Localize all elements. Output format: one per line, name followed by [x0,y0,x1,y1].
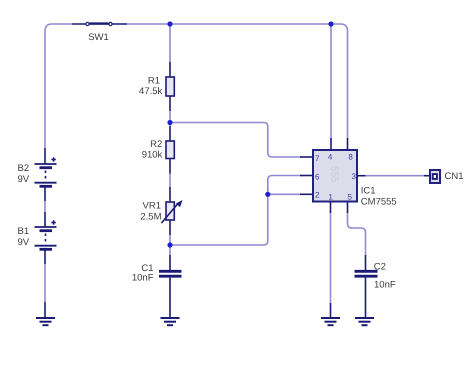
wire battery B1 to ground [44,264,46,302]
wire junction to IC pin 7 [170,123,302,158]
wire top rail from switch to pin 8 corner [127,24,348,139]
svg-text:10nF: 10nF [374,280,396,291]
svg-text:R1: R1 [148,76,160,87]
wire top rail from battery corner to switch [45,24,72,148]
battery B1 [18,212,57,264]
svg-text:2: 2 [315,191,320,200]
capacitor C2 [355,255,396,318]
svg-text:2.5M: 2.5M [140,211,161,222]
svg-text:7: 7 [315,154,320,163]
node junction R1 R2 [167,120,172,125]
wire junction to C1 [169,245,171,255]
svg-text:8: 8 [348,153,353,162]
ground battery [36,302,55,325]
svg-text:47.5k: 47.5k [139,86,162,97]
svg-text:910k: 910k [142,149,163,160]
wire IC pin 3 to CN1 [365,175,424,177]
IC IC1 CM7555 [300,138,397,213]
svg-text:3: 3 [352,172,357,181]
ground IC pin 1 [321,303,340,325]
wire R2 bottom to VR1 top [169,174,171,188]
wire IC pin 1 to ground [330,213,332,303]
switch SW1 [72,22,127,43]
svg-text:9V: 9V [18,174,30,185]
resistor R1 [139,62,174,111]
svg-text:5: 5 [348,192,353,201]
wire battery B2 to B1 [44,201,46,212]
svg-text:10nF: 10nF [132,273,154,284]
node junction top pin 4 [328,21,333,26]
svg-text:IC1: IC1 [361,186,376,197]
wire pin 4 branch [330,24,332,139]
capacitor C1 [132,255,182,318]
svg-text:CM7555: CM7555 [361,196,397,207]
ground C1 [161,318,180,325]
svg-text:C2: C2 [374,262,386,273]
potentiometer VR1 [140,187,182,235]
svg-text:6: 6 [315,173,320,182]
svg-text:SW1: SW1 [88,32,109,43]
ground C2 [355,318,374,325]
wire IC pin 5 to C2 [348,213,366,255]
connector CN1 [424,170,464,183]
node junction pin 2 [265,192,270,197]
node junction top R1 [167,21,172,26]
svg-text:555: 555 [328,166,339,183]
svg-text:B2: B2 [18,163,30,174]
wire node to IC pin 6 [268,176,302,195]
svg-text:VR1: VR1 [143,201,161,212]
svg-text:B1: B1 [18,226,30,237]
wire VR1 bottom to junction [169,235,171,246]
svg-text:1: 1 [328,192,333,201]
battery B2 [18,148,57,201]
svg-text:9V: 9V [18,237,30,248]
svg-text:4: 4 [328,153,333,162]
wire node to IC pin 2 [268,193,302,195]
svg-text:CN1: CN1 [445,171,464,182]
wire R1 top branch [169,24,171,62]
resistor R2 [142,126,175,174]
node junction VR1 C1 [167,242,172,247]
wire junction to IC pin 2 node [170,194,268,245]
wire R1 bottom to junction [169,111,171,126]
